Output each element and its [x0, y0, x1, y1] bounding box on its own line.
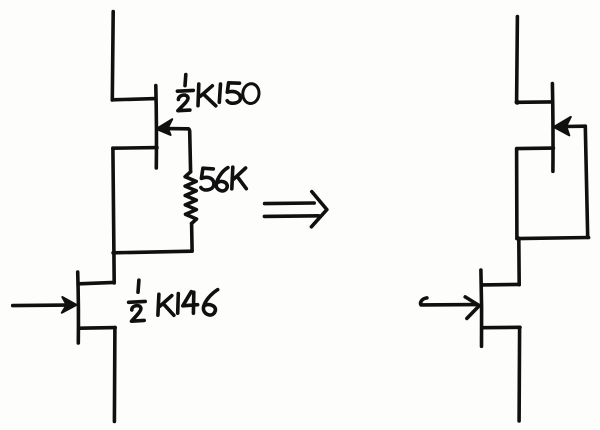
wire: right input arrow shaft with start hook	[421, 298, 476, 305]
label: 6 of K146	[203, 290, 217, 315]
wire: right circuit top drain wire	[515, 17, 519, 103]
wire: Q4 source lead horizontal	[482, 325, 520, 329]
node: junction dot at Q3 drain corner	[515, 100, 520, 105]
wire: left circuit top drain wire	[111, 12, 115, 101]
label: 6 of 56K	[216, 168, 228, 191]
label: fraction bar of 1/2 K150	[177, 89, 193, 93]
wire: Q4 drain lead horizontal	[482, 283, 519, 287]
label: 1 of K150	[219, 84, 220, 102]
transistor Q2 (1/2 K146) channel bar	[76, 272, 80, 343]
wire: resistor bottom to junction	[190, 224, 194, 251]
wire: input arrow shaft	[13, 303, 66, 307]
label: 1/2 numerator of K146	[136, 280, 140, 292]
label: 4 of K146	[183, 292, 198, 314]
label: 2 denominator of K150	[178, 95, 190, 111]
label: 5 of K150	[227, 83, 240, 103]
label: 5 of 56K	[201, 168, 214, 190]
label: 1/2 numerator of K150	[183, 75, 187, 86]
label: 1 of K146	[176, 294, 180, 314]
wire: Q1 drain lead horizontal	[112, 99, 155, 100]
transistor Q2 gate arrowhead	[62, 297, 77, 313]
label: 0 of K150	[242, 83, 260, 104]
wire: corner down from Q1 gate to resistor top	[188, 129, 190, 172]
wire: loop bottom horizontal	[517, 238, 589, 239]
wire: right circuit bottom source wire	[517, 328, 521, 422]
wire: Q2 drain lead horizontal	[79, 282, 114, 283]
wire: vertical from loop junction down to Q4 drain	[517, 238, 521, 285]
wire: Q3 drain lead horizontal	[517, 100, 552, 104]
label: K of K150	[198, 84, 216, 106]
implication arrow: chevron head	[311, 192, 327, 227]
wire: left loop vertical from Q3 source	[515, 149, 519, 239]
transistor Q1 gate arrowhead	[156, 119, 172, 135]
wire: Q1 source lead horizontal	[113, 146, 157, 150]
wire: Q3 source lead horizontal	[518, 146, 554, 150]
label: K of 56K	[232, 167, 247, 189]
transistor Q3 gate arrowhead	[554, 117, 571, 135]
label: 2 denominator of K146	[132, 306, 145, 322]
label: K of K146	[158, 294, 174, 315]
wire: Q3 gate shaft	[565, 124, 585, 128]
transistor Q3 channel bar	[551, 84, 555, 172]
wire: junction horizontal between source node and resistor bottom	[113, 251, 192, 253]
implication arrow: top bar	[265, 201, 315, 205]
transistor Q4 gate arrowhead	[465, 297, 479, 319]
wire: Q1 gate shaft from 56K	[167, 127, 189, 131]
label: fraction bar of 1/2 K146	[129, 300, 146, 304]
implication arrow: bottom bar	[264, 214, 318, 218]
wire: left circuit bottom source wire	[113, 328, 117, 422]
wire: right loop vertical (gate feedback)	[585, 126, 587, 237]
transistor Q4 channel bar	[479, 270, 483, 346]
wire: Q2 source lead horizontal	[80, 326, 115, 330]
resistor R1 56K zigzag	[185, 172, 196, 224]
transistor Q1 (1/2 K150) channel bar	[154, 86, 158, 169]
wire: vertical from Q1 source down to Q2 drain	[113, 148, 114, 283]
